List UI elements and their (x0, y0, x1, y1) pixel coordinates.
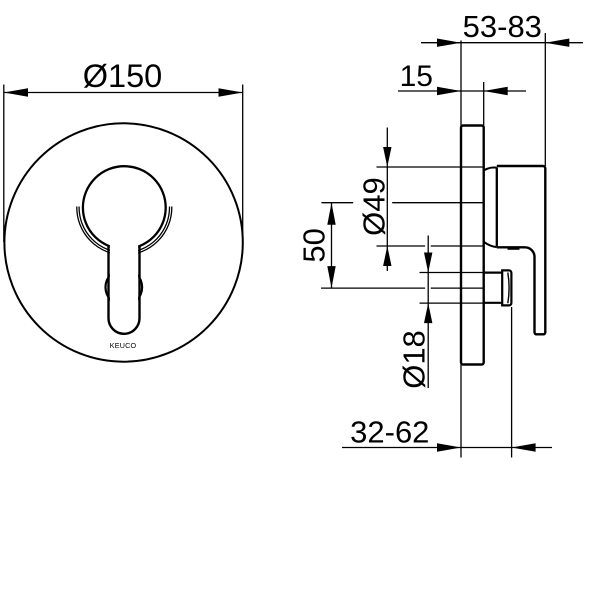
arrow 50 bottom (327, 266, 335, 288)
lever underside dash (508, 248, 520, 250)
arrow Ø150 left (4, 88, 28, 96)
boss top flare (484, 167, 497, 170)
arrow 15 right (484, 87, 508, 95)
ext line 50 bottom / knob centerline (321, 287, 425, 289)
arrow 32-62 right (512, 443, 536, 451)
escutcheon side rect (461, 126, 484, 365)
ext line 50 top / centerline (321, 202, 353, 204)
dim line Ø49 (386, 128, 388, 272)
lever handle side outline (497, 166, 546, 334)
C-arc inner (79, 207, 169, 253)
knob cap face curve (508, 273, 509, 304)
lever white fill (110, 244, 138, 332)
extension line wall x461 bottom (460, 365, 462, 458)
extension line lever face x545.3 (544, 33, 546, 166)
boss rim line (496, 168, 498, 247)
svg-text:KEUCO: KEUCO (110, 341, 137, 350)
svg-text:Ø49: Ø49 (357, 177, 392, 236)
knob cap (502, 270, 511, 305)
lever outline (109, 246, 140, 333)
svg-text:Ø18: Ø18 (396, 330, 431, 389)
dim line 53-83 (421, 42, 583, 44)
C-arc outer (77, 207, 172, 255)
ext line Ø49 top (377, 166, 485, 168)
ext line Ø18 bottom (420, 302, 484, 304)
pivot circle (106, 269, 143, 306)
svg-text:32-62: 32-62 (350, 415, 429, 450)
arrow Ø49 bottom (383, 246, 391, 266)
dim line 15 (398, 90, 526, 92)
extension line wall x461 top (460, 41, 462, 126)
extension line left (3, 85, 5, 243)
arrow 32-62 left (437, 443, 461, 451)
ext line Ø49 bottom (377, 245, 426, 247)
knob stem bottom (484, 302, 503, 304)
extension line knob face x511.6 (511, 307, 513, 458)
svg-text:15: 15 (400, 60, 433, 93)
arrow Ø49 top (383, 147, 391, 167)
arrow Ø18 bottom (424, 303, 432, 323)
arrow 50 top (327, 203, 335, 225)
ext line Ø18 top (420, 272, 484, 274)
handle inner circle (83, 166, 166, 249)
dim line Ø150 (4, 92, 243, 94)
dim line 32-62 (342, 447, 552, 449)
knob stem top (484, 272, 503, 274)
extension line face x483.7 top (483, 82, 485, 126)
svg-text:50: 50 (297, 228, 332, 262)
arrow 53-83 left (437, 39, 461, 47)
arrow Ø18 top (424, 253, 432, 273)
dim line Ø18 (427, 236, 429, 389)
svg-text:53-83: 53-83 (463, 9, 542, 44)
dim line 50 (331, 203, 333, 288)
escutcheon big circle (4, 123, 242, 361)
svg-text:Ø150: Ø150 (83, 58, 163, 94)
extension line right (242, 85, 244, 243)
arrow 53-83 right (545, 39, 569, 47)
arrow 15 left (437, 87, 461, 95)
boss bottom flare (484, 242, 497, 247)
arrow Ø150 right (219, 88, 243, 96)
